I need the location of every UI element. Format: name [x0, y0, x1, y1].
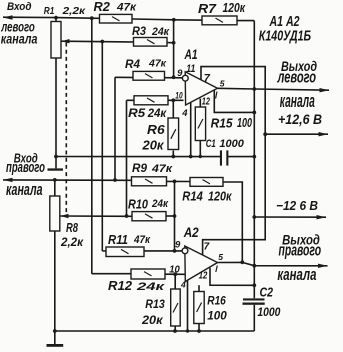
svg-text:R10: R10 [128, 198, 148, 212]
svg-text:24к: 24к [147, 108, 167, 120]
svg-text:1000: 1000 [257, 305, 280, 319]
svg-text:R13: R13 [145, 299, 165, 311]
svg-text:Вход: Вход [7, 1, 32, 13]
wire main right vertical bus [253, 21, 255, 331]
svg-text:12: 12 [202, 97, 211, 108]
wire -12.6V rail line [254, 216, 326, 218]
wire A1 output to arrow [218, 88, 330, 90]
resistor R9 [132, 177, 167, 186]
resistor R1 [51, 22, 61, 59]
label -12.6V [276, 198, 318, 213]
svg-text:А1: А1 [184, 46, 198, 62]
label op-amp A2 designator and pins [169, 224, 223, 289]
svg-text:4: 4 [180, 280, 186, 290]
label R2 value [94, 0, 138, 14]
svg-text:R12: R12 [108, 279, 132, 293]
label R11 value [108, 233, 151, 247]
wire A2 pin 4 to ground bus [187, 280, 189, 331]
label R13 value [141, 299, 165, 327]
wire R10 right lead [165, 215, 175, 217]
svg-text:9: 9 [177, 68, 183, 79]
arrow -12.6V [317, 215, 327, 219]
svg-text:канала: канала [1, 31, 38, 46]
resistor R7 [202, 16, 237, 25]
resistor R2 [100, 14, 133, 23]
label op-amp A1 designator and pins [175, 46, 225, 119]
wire R8 wiper line to R10 [61, 215, 134, 217]
wire A2 output to arrow [218, 262, 328, 265]
svg-text:+12,6 В: +12,6 В [278, 112, 322, 127]
wiper arrow R8 [61, 214, 69, 218]
svg-text:R6: R6 [147, 123, 166, 137]
svg-text:R2: R2 [94, 0, 110, 14]
output arrow right channel [318, 264, 328, 268]
wire A1 inverting input lead pin 9 [115, 76, 183, 79]
label R1 value [44, 5, 86, 17]
wire A2 inverting input lead pin 9 [102, 250, 182, 252]
wiper arrow R1 [62, 39, 70, 43]
svg-text:2,2к: 2,2к [60, 237, 84, 249]
svg-text:20к: 20к [141, 315, 164, 327]
svg-text:100: 100 [237, 116, 252, 130]
wire A2 non-inverting input lead pin 10 [92, 273, 185, 276]
svg-text:11: 11 [186, 63, 195, 75]
svg-text:R4: R4 [125, 57, 140, 71]
wire ground bus upper [56, 156, 254, 158]
ground lower chassis bar [47, 344, 64, 347]
svg-text:2,2к: 2,2к [61, 5, 85, 17]
label R6 value [141, 123, 165, 153]
capacitor C2 [243, 298, 265, 304]
wire A1 pin 4 to ground bus [190, 102, 192, 157]
resistor R10 [132, 212, 166, 221]
label A1 A2 type [259, 14, 311, 45]
wire left input line y17 [3, 17, 254, 20]
wire R1 wiper line to R3 [62, 40, 134, 43]
svg-text:12: 12 [199, 270, 208, 282]
input arrow right channel [3, 178, 13, 182]
label Vhod pravogo kanala [6, 150, 45, 199]
svg-text:20к: 20к [141, 139, 164, 153]
label R12 value [108, 279, 166, 293]
svg-text:канала: канала [280, 92, 315, 112]
svg-text:R3: R3 [132, 24, 146, 38]
capacitor C1 [220, 150, 229, 165]
ground upper chassis bar [48, 168, 64, 170]
svg-text:47к: 47к [116, 2, 138, 14]
label R4 value [125, 57, 167, 71]
svg-text:канала: канала [277, 265, 316, 284]
wire A2 input bus x174 [174, 181, 176, 251]
svg-text:правого: правого [6, 159, 45, 175]
svg-text:R1: R1 [44, 5, 55, 17]
wire A1 input bus x173 [173, 20, 175, 78]
svg-text:R14: R14 [182, 189, 203, 204]
label R9 value [132, 161, 174, 175]
wire vertical x115 R4 to right input [114, 77, 116, 180]
wire A2 pin 12 compensation [210, 268, 254, 286]
op-amp A1 [182, 72, 217, 105]
svg-text:R9: R9 [132, 161, 147, 175]
label R8 value [60, 221, 84, 249]
wire vertical x126 R5 to R8 wiper [126, 100, 128, 216]
svg-text:5: 5 [218, 252, 223, 262]
svg-text:R8: R8 [66, 221, 78, 235]
op-amp A2 [182, 246, 217, 282]
wire A1 non-inverting input lead pin 10 [127, 99, 184, 101]
label R14 value [182, 189, 232, 204]
label R15 value [211, 116, 252, 131]
wire bottom ground bus [55, 330, 255, 332]
svg-text:канала: канала [6, 181, 43, 199]
svg-text:7: 7 [204, 242, 210, 253]
resistor R13 [171, 274, 181, 331]
svg-text:К140УД1Б: К140УД1Б [259, 29, 311, 45]
svg-text:R11: R11 [108, 233, 128, 247]
resistor R15 [195, 99, 205, 157]
output arrow left channel [320, 88, 330, 92]
label R5 value [128, 108, 167, 120]
svg-text:24к: 24к [135, 281, 166, 293]
label Vhod levogo kanala [1, 1, 38, 47]
arrow +12.6V [319, 132, 329, 136]
svg-text:R16: R16 [207, 296, 226, 308]
wire R9 R14 leads to bus [165, 180, 191, 182]
svg-text:А1 А2: А1 А2 [269, 14, 300, 30]
svg-text:120к: 120к [208, 190, 232, 204]
resistor R16 [194, 285, 204, 331]
wire vertical bus x102 wiper to R11 [101, 41, 103, 251]
wire R14 right feedback [222, 182, 242, 262]
label R16 value [207, 296, 227, 323]
svg-text:7: 7 [204, 72, 211, 84]
label C1 value [206, 138, 245, 150]
svg-text:С1: С1 [206, 138, 216, 150]
node junction dots [53, 16, 267, 333]
svg-text:правого: правого [279, 241, 322, 260]
label Vyhod pravogo kanala [277, 233, 321, 285]
svg-text:С2: С2 [260, 285, 274, 300]
label R3 value [132, 24, 170, 38]
resistor R11 [106, 247, 144, 257]
wire A1 pin 7 supply [201, 67, 265, 255]
svg-text:5: 5 [220, 79, 225, 89]
resistor R6 [168, 100, 179, 156]
resistor R12 [131, 269, 165, 279]
svg-text:−12 6 В: −12 6 В [276, 198, 318, 213]
label R10 value [128, 198, 169, 212]
label +12.6V [278, 112, 322, 127]
wire +12.6V rail line [265, 133, 328, 135]
svg-text:24к: 24к [151, 26, 170, 38]
svg-text:47к: 47к [148, 58, 167, 70]
svg-text:100: 100 [207, 311, 227, 323]
svg-text:R5: R5 [128, 108, 146, 120]
wire R3 right lead [166, 42, 174, 44]
wire right input line y180 [3, 179, 133, 181]
svg-text:47к: 47к [151, 163, 174, 175]
resistor R4 [133, 71, 165, 80]
wire R1 leads [55, 18, 57, 169]
label Vyhod levogo kanala [277, 59, 317, 112]
svg-text:9: 9 [175, 240, 181, 251]
svg-text:А2: А2 [183, 224, 199, 240]
resistor R3 [134, 38, 168, 47]
svg-text:левого: левого [277, 68, 316, 87]
svg-text:10: 10 [169, 265, 180, 276]
svg-text:1000: 1000 [219, 138, 244, 150]
svg-text:4: 4 [181, 108, 188, 119]
resistor R5 [134, 96, 168, 105]
svg-text:R7: R7 [198, 1, 217, 16]
wire R8 leads [54, 180, 56, 344]
label R7 value [198, 1, 246, 16]
wire A1 pin 12 compensation [214, 90, 254, 112]
input arrow left channel [3, 15, 13, 19]
label C2 value [257, 285, 280, 320]
resistor R14 [190, 178, 223, 187]
svg-text:10: 10 [175, 90, 183, 101]
svg-text:R15: R15 [211, 116, 234, 131]
svg-text:47к: 47к [133, 234, 151, 246]
wire vertical bus x92 left input to R12 [91, 18, 93, 274]
wire dashed gang coupling R1 R8 [65, 43, 67, 216]
svg-text:120к: 120к [223, 1, 246, 15]
svg-text:24к: 24к [151, 198, 169, 210]
resistor R8 [50, 196, 60, 231]
